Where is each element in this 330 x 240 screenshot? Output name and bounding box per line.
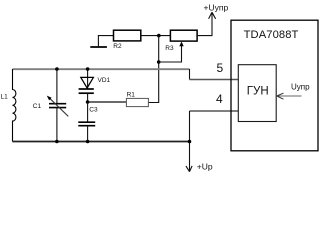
svg-text:TDA7088T: TDA7088T: [244, 29, 299, 41]
svg-text:4: 4: [216, 92, 223, 106]
node +Uupr arrow: [209, 12, 216, 18]
wire pin 4 line: [190, 110, 239, 112]
resistor R3 (potentiometer): [170, 30, 197, 41]
wire ground to R2: [98, 36, 113, 47]
wire +Up vertical: [189, 111, 191, 171]
inductor L1: [13, 69, 16, 142]
node C3 bottom: [86, 140, 90, 144]
svg-text:Uупр: Uупр: [291, 82, 310, 91]
wire step to pin 5: [189, 69, 191, 80]
wire bottom rail: [13, 141, 190, 143]
svg-text:VD1: VD1: [98, 77, 111, 84]
svg-text:C1: C1: [33, 103, 42, 110]
C1 trimmer arrow: [49, 97, 69, 116]
wire control vertical from junction down to R1: [148, 36, 158, 103]
node VD1-C3-R1 junction: [86, 100, 90, 104]
svg-text:ГУН: ГУН: [247, 86, 269, 98]
svg-text:R3: R3: [165, 45, 174, 52]
diode VD1 (varicap): [87, 69, 89, 89]
node C1 top: [55, 67, 59, 71]
wire R2 to R3: [141, 35, 171, 37]
node GUN inner box: [238, 65, 276, 122]
wire wiper of R3: [159, 43, 182, 62]
wire Uupr annotation arrow: [278, 95, 302, 97]
wire tank top rail: [13, 68, 190, 70]
ground: [90, 46, 107, 48]
node junction R2-R3: [157, 34, 161, 38]
svg-text:R1: R1: [127, 92, 136, 99]
svg-text:R2: R2: [113, 43, 122, 50]
node bottom rail junction: [188, 140, 192, 144]
resistor R2: [114, 30, 141, 41]
capacitor C1 (trimmer): [56, 69, 58, 103]
capacitor C3: [87, 102, 89, 122]
wire VD1 junction to R1: [88, 101, 127, 103]
svg-text:5: 5: [217, 61, 224, 75]
svg-text:L1: L1: [1, 94, 9, 101]
node +Up arrow: [186, 166, 192, 172]
node junction wiper: [157, 60, 161, 64]
svg-text:C3: C3: [89, 107, 98, 114]
wire R3 to +Uupr arrow: [197, 14, 212, 36]
op-amp U1 TDA7088T outer box: [231, 20, 318, 151]
svg-text:+Uр: +Uр: [197, 161, 213, 171]
resistor R1: [126, 98, 148, 106]
node VD1 top: [86, 67, 90, 71]
svg-text:+Uупр: +Uупр: [204, 3, 229, 13]
node C1 bottom: [55, 140, 59, 144]
